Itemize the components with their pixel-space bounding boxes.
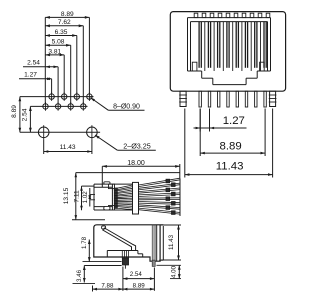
pin hole B1 (43, 104, 48, 109)
mount hole left (38, 127, 49, 138)
contact 5 (235, 22, 237, 68)
contact tails (114, 188, 117, 190)
svg-text:7.62: 7.62 (58, 19, 71, 26)
dim 1.78 (88, 240, 90, 262)
pin tip wire (124, 265, 126, 269)
leader 2-dia3.25 (95, 135, 117, 150)
row line top pins (20, 96, 94, 98)
dim 3.46 (83, 266, 85, 283)
pin hole T2 (61, 94, 66, 99)
pin 4 (227, 91, 229, 107)
svg-text:8.89: 8.89 (133, 282, 146, 289)
pin 7 (255, 91, 257, 107)
svg-text:5.08: 5.08 (52, 39, 65, 46)
dim 8.89 vertical left (19, 97, 21, 133)
svg-text:8–Ø0.90: 8–Ø0.90 (113, 104, 140, 111)
fan wire 3 (117, 192, 133, 194)
dim 1.02 (89, 188, 91, 207)
ext 1.27 wire (51, 79, 53, 94)
notch bottom (109, 206, 115, 211)
dim 7.11 (81, 186, 83, 210)
latch nub top (104, 182, 110, 184)
ext wire right (179, 164, 181, 179)
pin 5 (236, 91, 238, 107)
crosshair right hole (91, 125, 93, 139)
svg-text:4.00: 4.00 (170, 265, 177, 278)
pad 1 (166, 179, 170, 183)
ext wire (157, 264, 182, 266)
dim 1.27 footprint (19, 78, 52, 80)
ext wire (122, 267, 124, 291)
comb teeth (194, 13, 198, 17)
ext wire (153, 268, 155, 291)
svg-text:7.88: 7.88 (101, 282, 114, 289)
svg-text:2–Ø3.25: 2–Ø3.25 (123, 141, 151, 150)
pedestal (107, 250, 138, 252)
face edge (111, 184, 113, 210)
ext wire pin bottom (84, 265, 121, 267)
fan right edge (179, 179, 181, 217)
svg-text:1.27: 1.27 (24, 72, 37, 79)
pin 1 (199, 91, 201, 107)
dim 8.89 footprint (45, 16, 89, 18)
ext wire bottom (161, 259, 181, 261)
inner right edge (156, 225, 158, 261)
side tab bottom (159, 259, 163, 261)
left post front (180, 91, 186, 106)
pin 6 (245, 91, 247, 107)
right post front (270, 91, 276, 106)
ext wire (83, 261, 122, 263)
ext 7.62 wire (82, 26, 84, 104)
fan body outline (94, 183, 133, 185)
svg-text:11.43: 11.43 (216, 161, 244, 173)
pad 7 (166, 206, 170, 210)
svg-text:3.46: 3.46 (76, 269, 83, 282)
fan wire 7 (117, 203, 133, 206)
outer body front (170, 12, 285, 92)
latch window left (192, 62, 197, 71)
dim 7.62 footprint (45, 25, 83, 27)
dim 18.00 (102, 165, 180, 167)
svg-text:1.02: 1.02 (82, 191, 89, 204)
svg-text:2.54: 2.54 (27, 60, 40, 67)
ext wire left (101, 166, 103, 187)
svg-text:1.27: 1.27 (223, 115, 245, 127)
dim 5.08 footprint (45, 44, 70, 46)
fan wire 6 (117, 200, 133, 202)
fan wire 5 (117, 197, 133, 200)
svg-text:2.54: 2.54 (22, 108, 29, 121)
crosshair left hole (43, 125, 45, 139)
fan wire 2 (117, 188, 133, 191)
leader 8-dia0.90 (91, 98, 109, 111)
latch window right (260, 62, 265, 71)
dim 3.81 footprint (45, 54, 64, 56)
ext wire bottom (72, 219, 105, 221)
pin hole T1 (49, 94, 54, 99)
latch lever (102, 226, 106, 229)
pin hole T3 (74, 94, 79, 99)
ext wire (90, 194, 95, 196)
mount hole center line (20, 131, 100, 133)
ext wire (90, 199, 95, 201)
opening step profile (188, 70, 202, 72)
dim 6.35 footprint (45, 35, 77, 37)
center solder pin (122, 251, 128, 259)
svg-text:8.89: 8.89 (220, 140, 242, 152)
pad 8 (172, 211, 176, 215)
ext 5.08 wire (70, 45, 72, 104)
ext wire (199, 109, 201, 132)
latch nub bottom (104, 206, 110, 210)
fan wire 8 (117, 207, 133, 209)
svg-text:2.54: 2.54 (130, 271, 143, 278)
ext wire (92, 286, 94, 292)
ext 8.89 wire (88, 17, 90, 94)
pad 3 (166, 188, 170, 192)
svg-text:8.89: 8.89 (61, 11, 74, 18)
ext wire (170, 278, 181, 280)
ext 3.81 wire (63, 55, 65, 94)
pin 2 (208, 91, 210, 107)
svg-text:11.43: 11.43 (60, 144, 76, 151)
pcb post side (152, 225, 155, 260)
svg-text:18.00: 18.00 (127, 160, 145, 167)
contact 8 (263, 22, 265, 68)
pin carrier block (133, 182, 139, 214)
ext wire (209, 109, 211, 132)
svg-text:6.35: 6.35 (55, 29, 68, 36)
svg-text:13.15: 13.15 (63, 187, 70, 204)
ext wire (272, 109, 274, 178)
pin hole B3 (68, 104, 73, 109)
svg-text:8.89: 8.89 (11, 105, 18, 118)
ext wire (184, 109, 186, 178)
face line bottom (94, 206, 112, 208)
svg-text:7.11: 7.11 (73, 190, 80, 203)
mount hole right (87, 127, 98, 138)
slot fingers (204, 22, 206, 71)
dim 2.54 footprint (23, 66, 58, 68)
contact 2 (207, 22, 209, 68)
ext common ref wire (44, 17, 46, 103)
jack opening (188, 17, 271, 19)
ext wire (264, 109, 266, 157)
svg-text:3.81: 3.81 (48, 48, 61, 55)
pin hole B4 (81, 104, 86, 109)
ext wire (73, 282, 96, 284)
ext left wire (43, 139, 45, 154)
pad 4 (172, 192, 176, 196)
contact 4 (226, 22, 228, 68)
fan wire 1 (117, 185, 133, 188)
fan wire 4 (117, 195, 133, 196)
row line bottom pins (30, 105, 87, 107)
side tab edge (162, 226, 164, 260)
pin hole B2 (55, 104, 60, 109)
ext 6.35 wire (76, 36, 78, 95)
ext wire (199, 109, 201, 157)
contact 7 (254, 22, 256, 68)
dim 13.15 (75, 173, 77, 220)
ext wire (82, 185, 95, 187)
notch top (109, 184, 115, 189)
pin 3 (218, 91, 220, 107)
svg-text:1.78: 1.78 (81, 236, 88, 249)
contact 1 (198, 22, 200, 68)
pad 5 (166, 197, 170, 201)
ext right wire (91, 139, 93, 154)
svg-text:11.43: 11.43 (168, 234, 175, 250)
top ref wire (76, 172, 180, 174)
contact 3 (217, 22, 219, 68)
dim 2.54 vertical left (29, 106, 31, 132)
pin 8 (264, 91, 266, 107)
ext wire top (161, 224, 181, 226)
side view body (94, 225, 164, 261)
pad 6 (172, 202, 176, 206)
pin hole T4 (87, 94, 92, 99)
face line top (94, 186, 112, 188)
pad 2 (172, 183, 176, 187)
ext 2.54 wire (57, 67, 59, 104)
contact 6 (244, 22, 246, 68)
